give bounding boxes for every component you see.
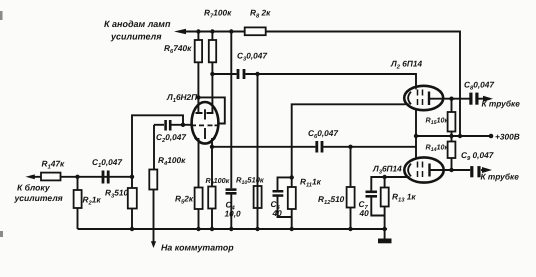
svg-text:К анодам ламп: К анодам ламп bbox=[104, 19, 171, 29]
svg-text:усилителя: усилителя bbox=[110, 32, 162, 42]
svg-text:+300В: +300В bbox=[495, 132, 520, 142]
svg-text:усилителя: усилителя bbox=[14, 193, 63, 203]
svg-text:На коммутатор: На коммутатор bbox=[161, 243, 234, 253]
svg-text:К блоку: К блоку bbox=[17, 183, 51, 193]
svg-text:К трубке: К трубке bbox=[482, 99, 521, 109]
svg-text:10,0: 10,0 bbox=[225, 209, 242, 219]
svg-text:40: 40 bbox=[272, 208, 283, 218]
svg-text:40: 40 bbox=[359, 208, 370, 218]
svg-text:К трубке: К трубке bbox=[481, 172, 520, 182]
